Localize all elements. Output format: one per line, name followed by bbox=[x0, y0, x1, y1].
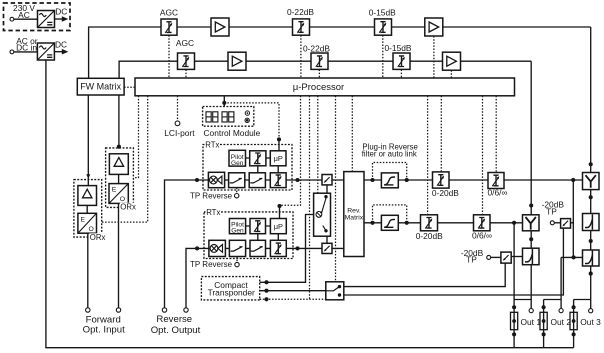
svg-text:Matrix: Matrix bbox=[345, 215, 364, 222]
svg-text:TP: TP bbox=[466, 255, 477, 265]
svg-text:DC: DC bbox=[55, 39, 67, 49]
svg-text:Out 2: Out 2 bbox=[551, 317, 572, 327]
svg-text:0-20dB: 0-20dB bbox=[416, 231, 443, 241]
svg-text:DC: DC bbox=[55, 6, 67, 16]
svg-text:Out 1: Out 1 bbox=[521, 317, 542, 327]
svg-text:0-15dB: 0-15dB bbox=[369, 7, 396, 17]
svg-text:Rev.: Rev. bbox=[347, 207, 361, 214]
svg-text:RTx: RTx bbox=[206, 208, 220, 217]
svg-text:μ-Processor: μ-Processor bbox=[293, 82, 344, 93]
svg-text:ORx: ORx bbox=[90, 233, 106, 242]
svg-text:RTx: RTx bbox=[205, 140, 219, 149]
svg-text:DC in: DC in bbox=[16, 43, 37, 53]
svg-text:Gen: Gen bbox=[231, 228, 244, 235]
svg-text:Out 3: Out 3 bbox=[580, 317, 601, 327]
svg-text:O: O bbox=[89, 226, 94, 233]
svg-text:FW Matrix: FW Matrix bbox=[80, 82, 121, 92]
svg-text:Reverse: Reverse bbox=[156, 314, 192, 325]
svg-text:TP Reverse: TP Reverse bbox=[190, 260, 233, 269]
svg-text:LCI-port: LCI-port bbox=[164, 128, 195, 138]
svg-text:TP Reverse: TP Reverse bbox=[190, 192, 233, 201]
svg-text:0-22dB: 0-22dB bbox=[303, 43, 330, 53]
svg-text:0/6/∞: 0/6/∞ bbox=[488, 187, 508, 197]
svg-text:TP: TP bbox=[546, 206, 557, 216]
svg-text:0-22dB: 0-22dB bbox=[287, 7, 314, 17]
svg-text:filter or auto link: filter or auto link bbox=[362, 149, 417, 158]
svg-text:AGC: AGC bbox=[176, 38, 194, 48]
svg-text:E: E bbox=[81, 217, 86, 224]
svg-text:E: E bbox=[112, 187, 117, 194]
svg-text:Control Module: Control Module bbox=[204, 128, 261, 138]
svg-text:AGC: AGC bbox=[160, 7, 178, 17]
svg-text:0-20dB: 0-20dB bbox=[432, 188, 459, 198]
svg-text:AC: AC bbox=[18, 10, 30, 20]
svg-text:Transponder: Transponder bbox=[208, 287, 255, 297]
svg-text:Gen: Gen bbox=[231, 160, 244, 167]
svg-text:μP: μP bbox=[274, 222, 283, 231]
svg-text:Opt. Input: Opt. Input bbox=[83, 324, 125, 335]
svg-text:0/6/∞: 0/6/∞ bbox=[472, 231, 492, 241]
svg-text:0-15dB: 0-15dB bbox=[384, 43, 411, 53]
svg-text:μP: μP bbox=[274, 154, 283, 163]
svg-text:ORx: ORx bbox=[120, 202, 136, 211]
svg-text:Opt. Output: Opt. Output bbox=[151, 325, 201, 336]
